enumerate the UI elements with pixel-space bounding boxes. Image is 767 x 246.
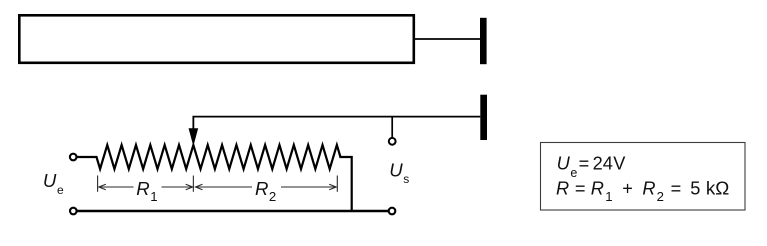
dimension tick (wiper position) (192, 176, 194, 192)
svg-text:R=R1+R2=5kΩ: R=R1+R2=5kΩ (556, 177, 729, 204)
terminal circle Us+ (389, 138, 396, 145)
wiper arrow (potentiometer tap) (189, 128, 199, 146)
svg-text:Us: Us (389, 160, 409, 186)
dimension tick (resistor start) (97, 176, 99, 192)
dimension arrowhead R2 left (196, 184, 203, 190)
dimension line R1 left part (99, 186, 134, 188)
svg-text:Ue=24V: Ue=24V (557, 154, 627, 181)
terminal circle Ue- (70, 208, 77, 215)
dimension line R1 right part (162, 186, 193, 188)
terminal bar (lower) (480, 95, 487, 140)
dimension tick (resistor end) (336, 176, 338, 192)
wire (resistor right end down to bottom rail) (339, 157, 351, 211)
wire (wiper to lower terminal bar) (193, 117, 480, 130)
dimension line R2 left part (196, 186, 253, 188)
terminal circle Ue+ (70, 154, 77, 161)
dimension arrowhead R1 right (186, 184, 193, 190)
svg-text:R2: R2 (255, 178, 276, 204)
wire (block B1 to upper terminal bar) (414, 38, 480, 40)
terminal circle Us- (389, 208, 396, 215)
wire (stub to output terminal Us+) (391, 117, 393, 138)
wire (bottom rail) (77, 210, 388, 213)
terminal bar (upper) (480, 18, 487, 64)
dimension line R2 right part (281, 186, 336, 188)
resistor R (potentiometer R1+R2) (97, 145, 341, 169)
wire (Ue+ to resistor) (77, 156, 98, 158)
annotation box (given values) (541, 143, 746, 211)
block B1 (slide resistor body) (19, 15, 414, 63)
dimension arrowhead R1 left (99, 184, 106, 190)
svg-text:R1: R1 (136, 178, 157, 204)
dimension arrowhead R2 right (329, 184, 336, 190)
svg-text:Ue: Ue (43, 170, 64, 197)
